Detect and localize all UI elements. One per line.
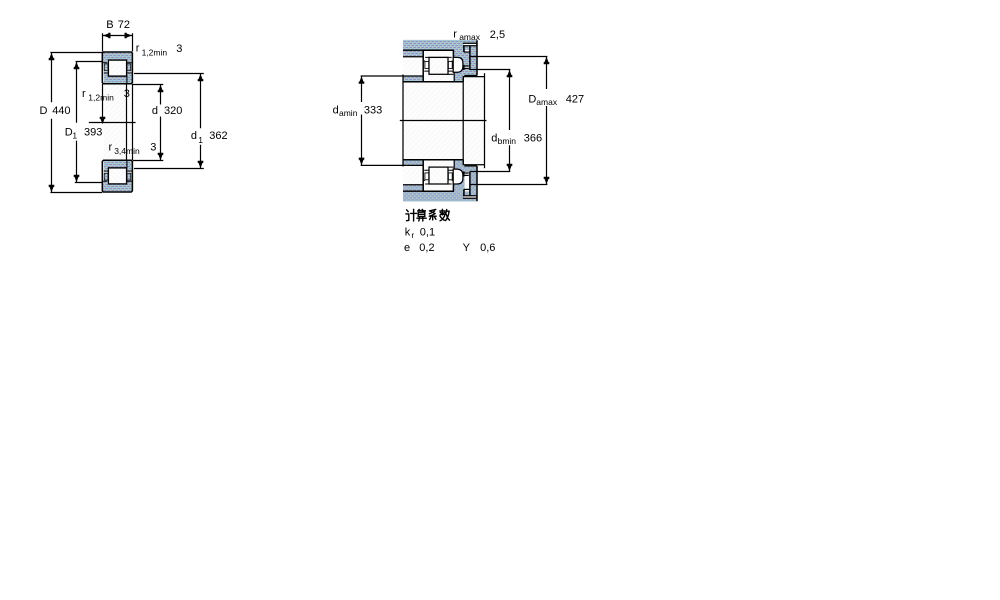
dimension D: line and arrows xyxy=(51,53,53,193)
roller bottom block xyxy=(108,168,126,184)
svg-text:bmin: bmin xyxy=(498,136,517,146)
svg-text:r: r xyxy=(453,29,457,41)
housing bore line xyxy=(403,49,454,51)
svg-text:1,2min: 1,2min xyxy=(142,48,168,58)
block outline xyxy=(102,52,132,84)
svg-text:Y: Y xyxy=(463,242,471,254)
dimension B: extension lines xyxy=(103,33,133,51)
svg-text:1: 1 xyxy=(198,135,203,145)
mini lip bottom edges xyxy=(423,60,453,62)
dimension Damax: extension lines xyxy=(470,57,547,185)
slot 2 left vertical bottom xyxy=(463,189,465,195)
svg-text:362: 362 xyxy=(209,130,227,142)
svg-text:r: r xyxy=(82,88,86,100)
slot 2 left vertical xyxy=(463,46,465,52)
svg-text:amin: amin xyxy=(339,108,358,118)
svg-text:r: r xyxy=(136,43,140,55)
svg-text:D: D xyxy=(40,105,48,117)
inner vertical bottom xyxy=(469,171,471,195)
svg-text:393: 393 xyxy=(84,127,102,139)
cage bar left xyxy=(104,64,108,71)
svg-text:2,5: 2,5 xyxy=(490,29,505,41)
svg-text:amax: amax xyxy=(459,32,481,42)
bearing right face line xyxy=(132,84,134,160)
dimension d1: line and arrows xyxy=(200,74,202,169)
angle ring foot bottom xyxy=(454,160,463,171)
svg-text:d: d xyxy=(491,132,497,144)
abutment angle ring body xyxy=(454,50,477,75)
dimension d1: extension lines xyxy=(134,74,204,169)
white slot 1 in ring xyxy=(464,44,476,46)
separator xyxy=(126,160,128,168)
outer ring lip bottom edges xyxy=(103,62,132,64)
mini bearing block top: outer band bottom edge xyxy=(425,56,452,58)
shoulder bottom edge bottom fig xyxy=(403,184,423,186)
slot 1 outline bottom xyxy=(463,196,477,199)
bore ghost column (hatched) xyxy=(104,84,126,160)
svg-text:3,4min: 3,4min xyxy=(114,146,140,156)
cage bar left bottom xyxy=(104,173,108,180)
char 数 xyxy=(440,209,450,221)
shoulder top and bottom lines xyxy=(463,77,484,165)
white slot 2 in ring xyxy=(465,50,469,52)
lip bottom edges xyxy=(103,180,132,182)
svg-text:1,2min: 1,2min xyxy=(88,92,114,102)
svg-text:0,1: 0,1 xyxy=(420,227,435,239)
svg-text:d: d xyxy=(333,104,339,116)
housing shoulder top xyxy=(403,50,423,57)
svg-text:k: k xyxy=(405,227,411,239)
foot right edge / shoulder left upper xyxy=(462,76,464,82)
svg-text:r: r xyxy=(109,141,113,153)
svg-text:440: 440 xyxy=(52,105,70,117)
housing shoulder bottom xyxy=(403,56,423,58)
svg-text:d: d xyxy=(152,105,158,117)
char 系 xyxy=(429,209,436,220)
shaft abutment ring (left strip) xyxy=(403,77,423,82)
slot 1 bottom fig xyxy=(464,196,476,198)
svg-text:B: B xyxy=(106,19,113,31)
char 算 xyxy=(417,209,426,221)
housing shoulder bottom xyxy=(403,185,423,192)
dimension d: line and arrows xyxy=(160,85,162,161)
mini flange top edges xyxy=(424,70,453,72)
dimension dbmin: extension lines xyxy=(470,70,510,172)
cage bar right bottom xyxy=(127,173,131,180)
dimension damin: line and arrows xyxy=(361,76,363,165)
svg-text:0,6: 0,6 xyxy=(480,242,495,254)
axis line right figure xyxy=(400,120,487,122)
axis line left figure xyxy=(89,122,136,124)
inner ring bottom block xyxy=(104,161,132,171)
shaft step face xyxy=(462,77,464,165)
cage bar right xyxy=(127,64,131,71)
dimension D1: extension lines xyxy=(75,62,103,183)
char 计 xyxy=(406,209,417,221)
housing band top xyxy=(403,40,477,50)
flange ring ghost column (hatched) xyxy=(128,84,132,160)
dimension dbmin: line and arrows xyxy=(509,70,511,172)
mini cage bars xyxy=(425,62,429,69)
block outline xyxy=(102,160,132,192)
mini block outline: top, left, right partial xyxy=(423,50,453,81)
slot 2 bottom fig xyxy=(465,190,469,192)
shoulder right face xyxy=(484,73,486,168)
svg-text:amax: amax xyxy=(536,97,558,107)
dimension D1: line and arrows xyxy=(76,62,78,183)
svg-text:D: D xyxy=(528,94,536,106)
side face line left with arrow to axis xyxy=(102,84,104,121)
flange top edges xyxy=(104,170,132,172)
outer ring (top band + lips), blue dithered xyxy=(103,53,132,63)
housing band bottom xyxy=(403,191,477,201)
svg-text:r: r xyxy=(411,230,414,240)
svg-text:e: e xyxy=(404,242,410,254)
shaft shoulder hatch xyxy=(463,77,484,165)
white channel in bottom angle ring xyxy=(465,172,470,189)
dimension d: extension lines xyxy=(133,85,163,161)
figure background hatch xyxy=(403,40,477,202)
mini roller xyxy=(429,57,448,74)
shaft strip bottom xyxy=(403,160,423,165)
housing bore line bottom xyxy=(403,190,454,192)
svg-text:3: 3 xyxy=(150,141,156,153)
angle ring right edge xyxy=(476,40,478,75)
shaft left edge xyxy=(402,75,404,167)
angle ring leg bottom xyxy=(464,75,477,77)
dimension Damax: line and arrows xyxy=(546,57,548,185)
outer ring bottom block xyxy=(103,181,132,191)
angle ring foot on shaft xyxy=(454,71,463,82)
loose flange face line xyxy=(126,84,128,160)
dimension B: line and arrows xyxy=(103,35,133,37)
svg-text:320: 320 xyxy=(164,105,182,117)
svg-text:72: 72 xyxy=(118,19,130,31)
dimension D: extension lines xyxy=(50,53,102,193)
slot 1 outline xyxy=(463,43,477,46)
svg-text:427: 427 xyxy=(566,94,584,106)
right edge bottom xyxy=(476,166,478,201)
loose flange bottom fig xyxy=(453,169,463,184)
loose flange separator xyxy=(126,76,128,84)
inner ring (bottom band + flanges), blue dithered xyxy=(104,73,132,83)
svg-text:d: d xyxy=(191,130,197,142)
white loose flange (exploded) with curve xyxy=(453,57,463,72)
slot 2 bottom edge bottom fig xyxy=(464,188,470,190)
svg-text:366: 366 xyxy=(524,132,542,144)
inner ring band top edge xyxy=(108,75,126,77)
angle ring body bottom xyxy=(454,166,477,191)
leg bottom edge bottom fig xyxy=(464,165,477,167)
svg-text:0,2: 0,2 xyxy=(419,242,434,254)
slot 2 bottom xyxy=(464,51,470,53)
svg-text:3: 3 xyxy=(124,88,130,100)
angle ring inner vertical xyxy=(469,46,471,70)
mini inner band top edge xyxy=(448,73,454,75)
dimension damin: extension lines xyxy=(361,76,403,165)
band top edge xyxy=(108,167,126,169)
svg-text:3: 3 xyxy=(176,43,182,55)
svg-text:1: 1 xyxy=(72,130,77,140)
svg-text:333: 333 xyxy=(364,104,382,116)
mini bearing bottom internals xyxy=(425,183,452,185)
inner ring flange top edges xyxy=(104,72,132,74)
shaft surface lines xyxy=(403,82,463,160)
roller (hatched white) xyxy=(108,60,126,76)
